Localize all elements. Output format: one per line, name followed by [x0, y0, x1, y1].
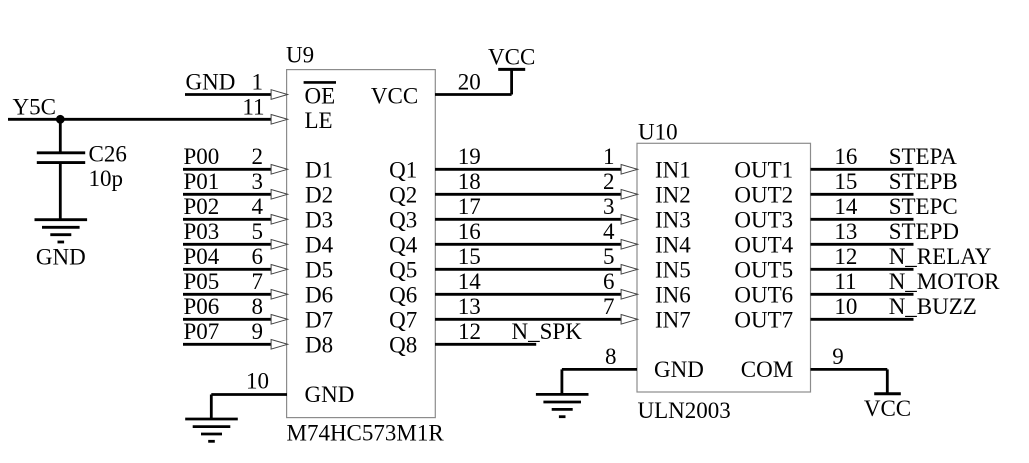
U9 pin name Q7 (pin 13): [389, 307, 417, 332]
svg-text:N_SPK: N_SPK: [512, 319, 583, 344]
U9 pin name Q6 (pin 14): [389, 282, 417, 307]
capacitor C26: [37, 153, 85, 163]
U10 pin name OUT2 (pin 15): [734, 182, 793, 207]
svg-text:STEPA: STEPA: [889, 144, 958, 169]
U9 pin name GND (pin 10): [305, 382, 355, 407]
wire U10 pin 10 (OUT7) net N_BUZZ: [811, 318, 914, 321]
power label GND (left): [36, 245, 86, 270]
pin number 6: [603, 269, 615, 294]
svg-text:STEPD: STEPD: [889, 219, 959, 244]
wire U10 pin 8 (GND) to ground: [562, 369, 637, 394]
svg-text:19: 19: [458, 144, 481, 169]
svg-text:16: 16: [834, 144, 857, 169]
pin arrow U9.3: [271, 190, 288, 200]
pin arrow U10.1: [621, 165, 638, 175]
wire U9 pin 18 (Q2) to U10 pin 2 (IN2): [435, 193, 622, 196]
svg-text:10p: 10p: [89, 166, 124, 191]
pin number 12: [834, 244, 857, 269]
pin arrow U9.4: [271, 215, 288, 225]
pin number 14: [834, 194, 858, 219]
U10 pin name OUT4 (pin 13): [734, 232, 793, 257]
svg-text:10: 10: [246, 369, 269, 394]
svg-text:14: 14: [458, 269, 482, 294]
svg-text:9: 9: [252, 319, 264, 344]
svg-text:N_MOTOR: N_MOTOR: [889, 269, 1000, 294]
pin number 16: [458, 219, 481, 244]
wire net P06 to U9 pin 8 (D7): [183, 318, 272, 321]
U9 pin name D5 (pin 6): [305, 257, 333, 282]
pin number 6: [252, 244, 264, 269]
svg-text:M74HC573M1R: M74HC573M1R: [287, 420, 445, 445]
pin arrow U10.4: [621, 240, 638, 250]
pin number 11: [834, 269, 856, 294]
U9 pin name D1 (pin 2): [305, 157, 333, 182]
pin number 13: [458, 294, 481, 319]
U10 pin name OUT5 (pin 12): [734, 257, 793, 282]
ground symbol (below U10): [536, 394, 589, 416]
U10 pin name OUT3 (pin 14): [734, 207, 793, 232]
svg-text:Q7: Q7: [389, 307, 417, 332]
pin number 1: [603, 144, 615, 169]
svg-text:GND: GND: [305, 382, 355, 407]
svg-text:3: 3: [252, 169, 264, 194]
svg-text:P04: P04: [184, 244, 220, 269]
net label STEPD: [889, 219, 959, 244]
U10 pin name GND (pin 8): [654, 357, 704, 382]
svg-text:U9: U9: [286, 43, 314, 68]
pin arrow U9.8: [271, 315, 288, 325]
power label VCC (top): [488, 45, 535, 70]
U9 pin name Q4 (pin 16): [389, 232, 418, 257]
svg-text:OE: OE: [305, 83, 336, 108]
pin arrow U10.2: [621, 190, 638, 200]
pin number 14: [458, 269, 482, 294]
pin number 1: [252, 69, 264, 94]
U9 pin name Q2 (pin 18): [389, 182, 417, 207]
svg-text:17: 17: [458, 194, 481, 219]
wire U9 pin 14 (Q6) to U10 pin 6 (IN6): [435, 293, 622, 296]
net label P07: [184, 319, 220, 344]
pin number 4: [252, 194, 264, 219]
net label P03: [184, 219, 220, 244]
wire U9 pin 19 (Q1) to U10 pin 1 (IN1): [435, 168, 622, 171]
value label M74HC573M1R: [287, 420, 445, 445]
svg-text:OUT3: OUT3: [734, 207, 793, 232]
pin number 13: [834, 219, 857, 244]
svg-text:Q5: Q5: [389, 257, 417, 282]
pin number 9: [252, 319, 264, 344]
pin arrow U9.11: [271, 115, 288, 125]
junction dot on Y5C net: [56, 115, 65, 124]
wire net GND to U9 pin 1 (OE): [185, 93, 272, 96]
svg-text:P02: P02: [184, 194, 220, 219]
value label 10p: [89, 166, 124, 191]
net label P04: [184, 244, 220, 269]
designator label C26: [89, 141, 127, 166]
svg-text:GND: GND: [36, 245, 86, 270]
net label P00: [184, 144, 220, 169]
svg-text:OUT2: OUT2: [734, 182, 793, 207]
U9 pin name OE (pin 1) with overline: [304, 82, 336, 108]
wire U9 pin 12 (Q8) net N_SPK: [435, 343, 536, 346]
wire U9 pin 17 (Q3) to U10 pin 3 (IN3): [435, 218, 622, 221]
svg-text:11: 11: [242, 94, 264, 119]
svg-text:2: 2: [603, 169, 615, 194]
net label STEPB: [889, 169, 958, 194]
svg-text:IN6: IN6: [655, 282, 691, 307]
svg-text:5: 5: [252, 219, 264, 244]
U10 pin name IN4 (pin 4): [655, 232, 691, 257]
wire U10 pin 16 (OUT1) net STEPA: [811, 168, 914, 171]
U10 pin name OUT6 (pin 11): [734, 282, 793, 307]
svg-text:18: 18: [458, 169, 481, 194]
svg-text:7: 7: [603, 294, 615, 319]
wire net P05 to U9 pin 7 (D6): [183, 293, 272, 296]
wire U9 pin 10 (GND) to ground: [211, 395, 287, 420]
U10 pin name IN1 (pin 1): [655, 157, 691, 182]
net label N_RELAY: [889, 244, 992, 269]
svg-text:Q1: Q1: [389, 157, 417, 182]
svg-text:4: 4: [252, 194, 264, 219]
svg-text:GND: GND: [186, 69, 236, 94]
svg-text:N_RELAY: N_RELAY: [889, 244, 992, 269]
svg-text:OUT5: OUT5: [734, 257, 793, 282]
pin number 17: [458, 194, 481, 219]
pin number 4: [603, 219, 615, 244]
designator label U9: [286, 43, 314, 68]
pin arrow U9.2: [271, 165, 288, 175]
svg-text:Y5C: Y5C: [13, 94, 56, 119]
U9 pin name Q3 (pin 17): [389, 207, 417, 232]
svg-text:11: 11: [834, 269, 856, 294]
pin number 20: [458, 69, 481, 94]
wire U9 pin 20 (VCC) to VCC symbol: [435, 68, 512, 94]
pin number 10: [834, 294, 857, 319]
net label Y5C: [13, 94, 56, 119]
pin number 19: [458, 144, 481, 169]
svg-text:OUT1: OUT1: [734, 157, 793, 182]
svg-text:10: 10: [834, 294, 857, 319]
U9 pin name Q1 (pin 19): [389, 157, 417, 182]
svg-text:Q6: Q6: [389, 282, 417, 307]
svg-text:P07: P07: [184, 319, 220, 344]
svg-text:IN5: IN5: [655, 257, 691, 282]
net label N_BUZZ: [889, 294, 977, 319]
svg-text:C26: C26: [89, 141, 127, 166]
svg-text:D5: D5: [305, 257, 333, 282]
U9 pin name D3 (pin 4): [305, 207, 333, 232]
svg-text:5: 5: [603, 244, 615, 269]
svg-text:D2: D2: [305, 182, 333, 207]
power label VCC (bottom right): [864, 396, 911, 421]
svg-text:LE: LE: [305, 108, 333, 133]
U10 pin name IN3 (pin 3): [655, 207, 691, 232]
svg-text:D8: D8: [305, 332, 333, 357]
wire net P04 to U9 pin 6 (D5): [183, 268, 272, 271]
svg-text:OUT6: OUT6: [734, 282, 793, 307]
svg-text:GND: GND: [654, 357, 704, 382]
pin arrow U10.6: [621, 290, 638, 300]
pin arrow U9.6: [271, 265, 288, 275]
wire U9 pin 13 (Q7) to U10 pin 7 (IN7): [435, 318, 622, 321]
U10 pin name IN7 (pin 7): [655, 307, 691, 332]
svg-text:16: 16: [458, 219, 481, 244]
svg-text:U10: U10: [638, 120, 678, 145]
svg-text:VCC: VCC: [371, 83, 418, 108]
wire net P03 to U9 pin 5 (D4): [183, 243, 272, 246]
svg-text:15: 15: [834, 169, 857, 194]
svg-text:7: 7: [252, 269, 264, 294]
wire U10 pin 13 (OUT4) net STEPD: [811, 243, 914, 246]
svg-text:D1: D1: [305, 157, 333, 182]
wire U10 pin 9 (COM) to VCC symbol: [811, 369, 888, 393]
net label N_MOTOR: [889, 269, 1000, 294]
U9 pin name D2 (pin 3): [305, 182, 333, 207]
designator label U10: [638, 120, 678, 145]
svg-text:VCC: VCC: [488, 45, 535, 70]
pin number 9: [832, 344, 844, 369]
svg-text:20: 20: [458, 69, 481, 94]
pin number 16: [834, 144, 857, 169]
pin number 3: [603, 194, 615, 219]
U9 pin name LE (pin 11): [305, 108, 333, 133]
svg-text:13: 13: [458, 294, 481, 319]
U9 pin name VCC (pin 20): [371, 83, 418, 108]
svg-text:14: 14: [834, 194, 858, 219]
wire net P02 to U9 pin 4 (D3): [183, 218, 272, 221]
pin number 15: [834, 169, 857, 194]
svg-text:8: 8: [605, 344, 617, 369]
pin number 2: [603, 169, 615, 194]
wire U10 pin 15 (OUT2) net STEPB: [811, 193, 914, 196]
pin arrow U9.5: [271, 240, 288, 250]
wire U9 pin 15 (Q5) to U10 pin 5 (IN5): [435, 268, 622, 271]
wire Y5C junction down to capacitor C26: [59, 119, 62, 153]
U10 pin name COM (pin 9): [741, 357, 793, 382]
svg-text:P00: P00: [184, 144, 220, 169]
svg-text:IN1: IN1: [655, 157, 691, 182]
svg-text:12: 12: [834, 244, 857, 269]
svg-text:P05: P05: [184, 269, 220, 294]
svg-text:IN7: IN7: [655, 307, 691, 332]
svg-text:P01: P01: [184, 169, 220, 194]
svg-text:STEPB: STEPB: [889, 169, 958, 194]
IC U10 body (ULN2003 driver): [637, 143, 811, 392]
U10 pin name IN6 (pin 6): [655, 282, 691, 307]
U9 pin name D6 (pin 7): [305, 282, 333, 307]
ground symbol (left, below C26): [35, 220, 88, 242]
svg-text:2: 2: [252, 144, 264, 169]
svg-text:4: 4: [603, 219, 615, 244]
svg-text:6: 6: [603, 269, 615, 294]
svg-text:D3: D3: [305, 207, 333, 232]
wire U10 pin 14 (OUT3) net STEPC: [811, 218, 914, 221]
pin number 15: [458, 244, 481, 269]
pin number 8: [605, 344, 617, 369]
pin arrow U9.7: [271, 290, 288, 300]
U10 pin name OUT7 (pin 10): [734, 307, 793, 332]
net label N_SPK: [512, 319, 583, 344]
U10 pin name OUT1 (pin 16): [734, 157, 793, 182]
U9 pin name Q5 (pin 15): [389, 257, 417, 282]
svg-text:OUT7: OUT7: [734, 307, 793, 332]
wire C26 to ground: [59, 163, 62, 220]
svg-text:3: 3: [603, 194, 615, 219]
svg-text:IN3: IN3: [655, 207, 691, 232]
net label STEPA: [889, 144, 958, 169]
U9 pin name D7 (pin 8): [305, 307, 333, 332]
pin number 2: [252, 144, 264, 169]
svg-text:OUT4: OUT4: [734, 232, 793, 257]
U9 pin name Q8 (pin 12): [389, 332, 417, 357]
svg-text:12: 12: [458, 319, 481, 344]
svg-text:8: 8: [252, 294, 264, 319]
svg-text:15: 15: [458, 244, 481, 269]
pin number 5: [252, 219, 264, 244]
wire U9 pin 16 (Q4) to U10 pin 4 (IN4): [435, 243, 622, 246]
svg-text:6: 6: [252, 244, 264, 269]
net label GND on U9 pin 1: [186, 69, 236, 94]
net label P02: [184, 194, 220, 219]
svg-text:IN4: IN4: [655, 232, 691, 257]
svg-text:9: 9: [832, 344, 844, 369]
pin number 11: [242, 94, 264, 119]
pin number 10: [246, 369, 269, 394]
svg-text:Q8: Q8: [389, 332, 417, 357]
net label P01: [184, 169, 220, 194]
net label P05: [184, 269, 220, 294]
value label ULN2003: [638, 398, 731, 423]
pin arrow U9.9: [271, 340, 288, 350]
U10 pin name IN2 (pin 2): [655, 182, 691, 207]
svg-text:P03: P03: [184, 219, 220, 244]
pin number 8: [252, 294, 264, 319]
svg-text:VCC: VCC: [864, 396, 911, 421]
pin number 3: [252, 169, 264, 194]
wire U10 pin 11 (OUT6) net N_MOTOR: [811, 293, 914, 296]
IC U9 body (M74HC573M1R latch): [287, 70, 436, 418]
svg-text:1: 1: [252, 69, 264, 94]
svg-text:13: 13: [834, 219, 857, 244]
wire net P07 to U9 pin 9 (D8): [183, 343, 272, 346]
VCC power symbol (bottom right, inverted): [874, 392, 901, 395]
svg-text:D6: D6: [305, 282, 333, 307]
pin arrow U10.7: [621, 315, 638, 325]
pin number 12: [458, 319, 481, 344]
U10 pin name IN5 (pin 5): [655, 257, 691, 282]
net label STEPC: [889, 194, 958, 219]
svg-text:1: 1: [603, 144, 615, 169]
svg-text:D7: D7: [305, 307, 333, 332]
pin number 18: [458, 169, 481, 194]
svg-text:Q2: Q2: [389, 182, 417, 207]
pin arrow U10.5: [621, 265, 638, 275]
svg-text:Q3: Q3: [389, 207, 417, 232]
svg-text:COM: COM: [741, 357, 793, 382]
ground symbol (below U9): [185, 419, 238, 441]
pin number 7: [603, 294, 615, 319]
wire net P01 to U9 pin 3 (D2): [183, 193, 272, 196]
svg-text:ULN2003: ULN2003: [638, 398, 731, 423]
svg-text:N_BUZZ: N_BUZZ: [889, 294, 977, 319]
VCC power symbol (top): [498, 68, 525, 71]
pin arrow U10.3: [621, 215, 638, 225]
wire U10 pin 12 (OUT5) net N_RELAY: [811, 268, 914, 271]
U9 pin name D4 (pin 5): [305, 232, 334, 257]
pin arrow U9.1: [271, 90, 288, 100]
svg-text:Q4: Q4: [389, 232, 418, 257]
svg-text:IN2: IN2: [655, 182, 691, 207]
net label P06: [184, 294, 220, 319]
wire net Y5C to U9 pin 11 (LE): [8, 118, 272, 121]
pin number 5: [603, 244, 615, 269]
wire net P00 to U9 pin 2 (D1): [183, 168, 272, 171]
svg-text:P06: P06: [184, 294, 220, 319]
svg-text:STEPC: STEPC: [889, 194, 958, 219]
pin number 7: [252, 269, 264, 294]
svg-text:D4: D4: [305, 232, 334, 257]
U9 pin name D8 (pin 9): [305, 332, 333, 357]
